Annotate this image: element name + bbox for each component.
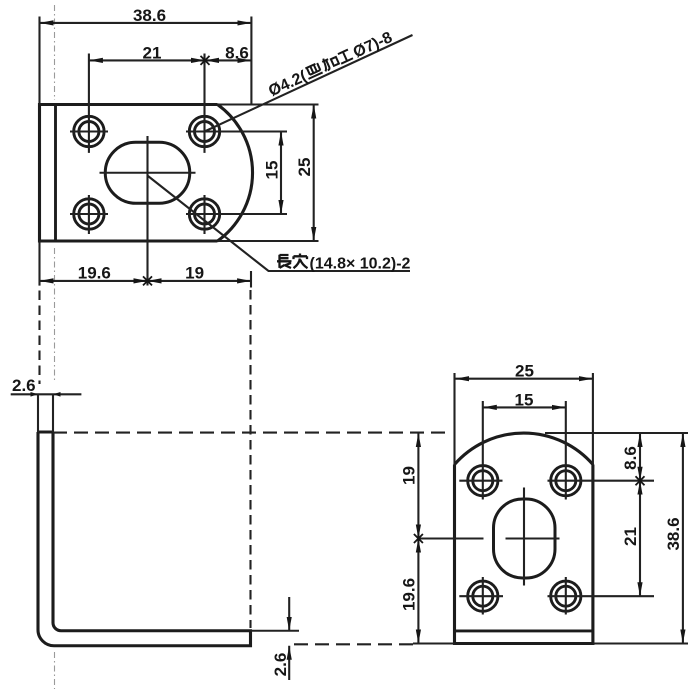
dimension 25 (top view right) bbox=[218, 105, 319, 242]
dimension 38.6 (front view far right) bbox=[545, 433, 688, 644]
dimension 19.6 / 19 (bottom of top view) bbox=[40, 241, 252, 288]
slot (obround 14.8x10.2) bbox=[105, 142, 190, 203]
flange B outline with arced top bbox=[455, 433, 593, 643]
dimension 38.6 (top) bbox=[40, 17, 252, 106]
svg-text:15: 15 bbox=[263, 161, 282, 180]
label 長穴(14.8×10.2)-2 bbox=[277, 254, 308, 269]
svg-text:19: 19 bbox=[185, 263, 204, 282]
hole crosshair centerlines front view bbox=[459, 401, 654, 615]
dimension 2.6 (horizontal leg thickness, right) bbox=[288, 597, 290, 680]
svg-text:8.6: 8.6 bbox=[621, 446, 640, 470]
plate A outline with arced right edge bbox=[40, 105, 253, 242]
svg-text:38.6: 38.6 bbox=[664, 517, 683, 550]
label countersink Ø4.2(皿加工 Ø7)-8 bbox=[266, 29, 395, 100]
extension of side edges up to 25-dim bbox=[455, 373, 593, 465]
dimension 15 (top view right) bbox=[280, 132, 282, 215]
svg-text:25: 25 bbox=[515, 362, 534, 381]
slot centerlines bbox=[100, 136, 196, 286]
svg-text:Ø7)-8: Ø7)-8 bbox=[351, 29, 395, 61]
dimension 8.6 / 21 (front view right) bbox=[639, 433, 641, 596]
slot (obround 10.2x14.8 vertical) bbox=[494, 499, 556, 578]
kanji 工 bbox=[337, 49, 353, 63]
svg-text:38.6: 38.6 bbox=[133, 6, 166, 25]
hole crosshair centerlines top view bbox=[70, 132, 287, 235]
L profile outline bbox=[38, 432, 251, 646]
junction tick marks (star) bbox=[143, 56, 645, 543]
hole H6 top-right bbox=[551, 466, 581, 496]
hole H5 top-left bbox=[468, 466, 498, 496]
svg-text:8.6: 8.6 bbox=[225, 44, 249, 63]
svg-text:15: 15 bbox=[515, 390, 534, 409]
hole H1 top-left (countersunk) bbox=[74, 116, 104, 146]
svg-text:19.6: 19.6 bbox=[78, 263, 111, 282]
svg-text:2.6: 2.6 bbox=[12, 376, 36, 395]
dashed projection line at flange top level bbox=[53, 432, 445, 434]
leader line for slot bbox=[148, 176, 410, 271]
bend line inside plate A bbox=[54, 105, 57, 242]
svg-text:25: 25 bbox=[295, 158, 314, 177]
dimension 19 / 19.6 (front view left) bbox=[413, 433, 455, 644]
svg-text:19.6: 19.6 bbox=[400, 578, 419, 611]
hole H2 top-right (countersunk) bbox=[189, 116, 219, 146]
projection dashed vertical from plate left edge bbox=[38, 291, 40, 385]
kanji 穴 bbox=[294, 254, 308, 269]
thin extension of leg top surface to the right bbox=[251, 630, 300, 632]
dimension 25 (front view top) bbox=[455, 378, 593, 380]
svg-text:2.6: 2.6 bbox=[271, 653, 290, 677]
dimension 15 (front view) bbox=[483, 406, 566, 408]
leader line for countersunk holes bbox=[205, 35, 413, 132]
dimension 8.6 bbox=[205, 59, 251, 61]
kanji 皿 bbox=[304, 63, 323, 79]
svg-text:21: 21 bbox=[143, 44, 162, 63]
dimension 2.6 (vertical leg thickness, top) bbox=[11, 392, 82, 432]
hole H8 bottom-right bbox=[551, 581, 581, 611]
svg-text:Ø4.2(: Ø4.2( bbox=[266, 68, 310, 100]
centerline (dash-dot) above top view bbox=[54, 5, 56, 689]
svg-text:19: 19 bbox=[400, 466, 419, 485]
dimension 21 bbox=[89, 54, 205, 153]
hole H4 bottom-right (countersunk) bbox=[189, 199, 219, 229]
svg-text:21: 21 bbox=[621, 527, 640, 546]
svg-text:(14.8× 10.2)-2: (14.8× 10.2)-2 bbox=[310, 256, 411, 273]
slot centerlines bbox=[418, 488, 559, 586]
dashed projection line at bracket bottom level bbox=[294, 643, 413, 645]
hole H7 bottom-left bbox=[468, 581, 498, 611]
projection dashed vertical from top view right extreme bbox=[249, 290, 251, 628]
kanji 加 bbox=[320, 54, 339, 72]
kanji 長 bbox=[277, 255, 292, 268]
bend line near bottom bbox=[455, 629, 593, 632]
hole H3 bottom-left (countersunk) bbox=[74, 199, 104, 229]
